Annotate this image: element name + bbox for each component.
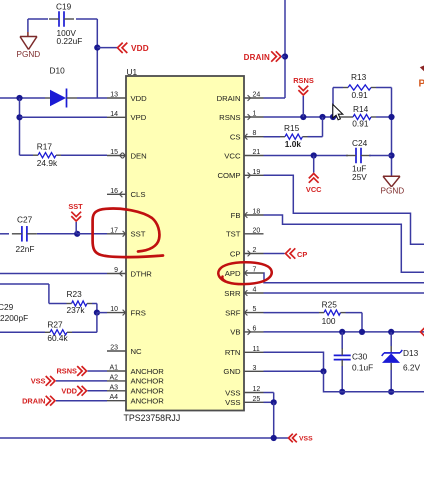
svg-text:GND: GND	[223, 367, 241, 376]
svg-text:24: 24	[253, 92, 261, 99]
svg-text:TST: TST	[226, 230, 241, 239]
svg-text:1: 1	[253, 111, 257, 118]
svg-text:237k: 237k	[67, 305, 86, 315]
svg-text:DRAIN: DRAIN	[244, 53, 270, 62]
svg-text:VSS: VSS	[225, 398, 240, 407]
svg-text:0.91: 0.91	[352, 119, 369, 129]
svg-text:6.2V: 6.2V	[403, 363, 421, 373]
svg-text:TPS23758RJJ: TPS23758RJJ	[124, 413, 181, 423]
svg-text:20: 20	[253, 227, 261, 234]
svg-text:CLS: CLS	[131, 190, 146, 199]
svg-text:SRF: SRF	[225, 308, 241, 317]
svg-text:VCC: VCC	[224, 151, 241, 160]
svg-text:15: 15	[110, 149, 118, 156]
svg-text:VDD: VDD	[61, 386, 77, 395]
svg-text:P: P	[419, 79, 424, 90]
svg-text:VCC: VCC	[306, 185, 322, 194]
svg-text:FB: FB	[231, 211, 241, 220]
svg-text:C19: C19	[56, 2, 72, 12]
svg-text:60.4k: 60.4k	[47, 333, 68, 343]
svg-text:PGND: PGND	[17, 50, 41, 59]
svg-text:16: 16	[110, 188, 118, 195]
svg-text:R23: R23	[67, 289, 83, 299]
svg-text:10: 10	[110, 306, 118, 313]
svg-text:VSS: VSS	[225, 388, 240, 397]
svg-text:VSS: VSS	[299, 436, 313, 443]
svg-text:DTHR: DTHR	[131, 269, 153, 278]
svg-text:0.91: 0.91	[352, 90, 369, 100]
svg-text:VPD: VPD	[131, 113, 147, 122]
svg-text:SST: SST	[131, 230, 146, 239]
svg-text:R14: R14	[353, 104, 369, 114]
svg-text:SST: SST	[68, 202, 83, 211]
svg-text:RSNS: RSNS	[219, 113, 240, 122]
svg-text:A2: A2	[109, 374, 118, 381]
svg-text:23: 23	[110, 345, 118, 352]
svg-text:4: 4	[253, 287, 257, 294]
svg-text:VB: VB	[230, 328, 240, 337]
svg-text:A1: A1	[109, 365, 118, 372]
svg-text:R25: R25	[322, 299, 338, 309]
svg-text:2: 2	[253, 247, 257, 254]
svg-text:D10: D10	[50, 66, 66, 76]
svg-text:R15: R15	[284, 123, 300, 133]
svg-text:A4: A4	[109, 394, 118, 401]
svg-text:25V: 25V	[352, 172, 367, 182]
svg-text:PGND: PGND	[381, 186, 405, 195]
svg-text:0.1uF: 0.1uF	[352, 363, 373, 373]
svg-text:21: 21	[253, 149, 261, 156]
svg-text:ANCHOR: ANCHOR	[131, 377, 165, 386]
svg-text:D13: D13	[403, 348, 419, 358]
svg-text:8: 8	[253, 130, 257, 137]
svg-text:R27: R27	[47, 320, 63, 330]
svg-text:25: 25	[253, 396, 261, 403]
svg-text:U1: U1	[127, 67, 138, 77]
svg-text:0.22uF: 0.22uF	[57, 36, 83, 46]
svg-text:13: 13	[110, 92, 118, 99]
svg-text:SRR: SRR	[224, 289, 241, 298]
svg-text:7: 7	[253, 267, 257, 274]
svg-text:6: 6	[253, 325, 257, 332]
svg-text:VDD: VDD	[131, 94, 148, 103]
svg-text:CP: CP	[297, 250, 307, 259]
svg-text:3: 3	[253, 365, 257, 372]
svg-text:ANCHOR: ANCHOR	[131, 397, 165, 406]
svg-text:19: 19	[253, 169, 261, 176]
svg-text:11: 11	[253, 346, 260, 353]
svg-text:5: 5	[253, 306, 257, 313]
svg-text:100: 100	[322, 316, 336, 326]
svg-text:9: 9	[114, 267, 118, 274]
svg-text:DRAIN: DRAIN	[22, 396, 45, 405]
svg-text:DRAIN: DRAIN	[217, 94, 241, 103]
svg-text:FRS: FRS	[131, 308, 146, 317]
svg-text:CP: CP	[230, 249, 241, 258]
svg-text:14: 14	[110, 111, 118, 118]
svg-text:12: 12	[253, 386, 261, 393]
svg-text:ANCHOR: ANCHOR	[131, 387, 165, 396]
svg-text:18: 18	[253, 209, 261, 216]
svg-text:RSNS: RSNS	[56, 367, 77, 376]
svg-text:22nF: 22nF	[16, 244, 35, 254]
svg-text:A3: A3	[109, 384, 118, 391]
svg-text:APD: APD	[225, 269, 241, 278]
svg-text:COMP: COMP	[217, 171, 240, 180]
svg-text:R13: R13	[351, 72, 367, 82]
svg-text:2200pF: 2200pF	[0, 313, 28, 323]
svg-text:RSNS: RSNS	[293, 76, 314, 85]
svg-text:17: 17	[110, 227, 118, 234]
svg-text:VSS: VSS	[31, 377, 46, 386]
svg-text:DEN: DEN	[131, 151, 147, 160]
svg-text:CS: CS	[230, 133, 241, 142]
svg-text:24.9k: 24.9k	[37, 158, 58, 168]
svg-text:C30: C30	[352, 351, 368, 361]
svg-text:ANCHOR: ANCHOR	[131, 367, 165, 376]
svg-text:VDD: VDD	[131, 44, 149, 53]
svg-text:1.0k: 1.0k	[285, 139, 302, 149]
svg-text:C29: C29	[0, 302, 14, 312]
svg-text:RTN: RTN	[225, 348, 241, 357]
svg-text:C27: C27	[17, 215, 33, 225]
svg-text:R17: R17	[37, 142, 53, 152]
svg-text:C24: C24	[352, 138, 368, 148]
svg-text:NC: NC	[131, 347, 143, 356]
